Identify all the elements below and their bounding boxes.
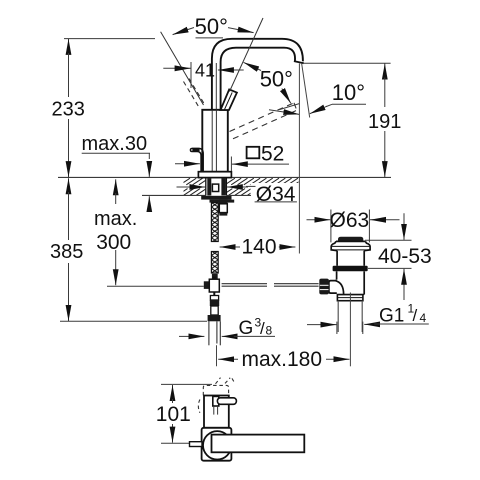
svg-text:300: 300 bbox=[96, 231, 131, 254]
svg-text:41: 41 bbox=[195, 61, 215, 81]
svg-text:385: 385 bbox=[50, 241, 83, 263]
svg-text:G: G bbox=[239, 318, 254, 339]
svg-text:/: / bbox=[413, 306, 418, 325]
svg-text:8: 8 bbox=[266, 324, 273, 338]
svg-text:Ø63: Ø63 bbox=[330, 209, 370, 232]
svg-text:Ø34: Ø34 bbox=[256, 183, 296, 206]
svg-text:50°: 50° bbox=[260, 66, 293, 91]
svg-text:G1: G1 bbox=[379, 306, 404, 327]
svg-text:50°: 50° bbox=[195, 14, 228, 39]
svg-text:233: 233 bbox=[52, 98, 85, 120]
svg-text:101: 101 bbox=[156, 403, 191, 426]
svg-text:/: / bbox=[260, 319, 265, 338]
svg-text:40-53: 40-53 bbox=[378, 245, 432, 268]
svg-text:max.180: max.180 bbox=[242, 348, 323, 371]
svg-text:52: 52 bbox=[261, 143, 284, 166]
svg-text:max.30: max.30 bbox=[82, 133, 148, 155]
svg-text:4: 4 bbox=[420, 311, 427, 325]
svg-text:140: 140 bbox=[242, 236, 277, 259]
svg-text:10°: 10° bbox=[332, 80, 365, 105]
svg-text:191: 191 bbox=[368, 111, 401, 133]
svg-text:max.: max. bbox=[94, 208, 137, 230]
